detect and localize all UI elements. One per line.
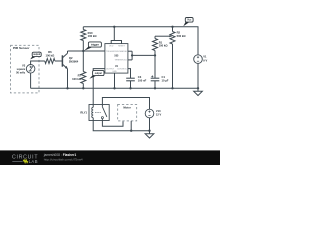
svg-text:jamesh008 : Flasher1: jamesh008 : Flasher1 bbox=[43, 153, 77, 157]
svg-text:Vcc: Vcc bbox=[187, 19, 192, 22]
pin THRESHOLD bbox=[115, 60, 128, 62]
svg-text:100 kΩ: 100 kΩ bbox=[72, 77, 82, 81]
resistor R10 bbox=[81, 27, 86, 51]
wire V3 bottom to ground rail bbox=[30, 73, 32, 88]
capacitor C3 bbox=[126, 78, 135, 89]
label Q2 2N3904 bbox=[69, 56, 79, 63]
ground symbol at V1 bbox=[194, 88, 203, 95]
wire relay switch to motor bbox=[102, 121, 123, 127]
label V1 9 V bbox=[203, 55, 207, 63]
svg-text:output: output bbox=[33, 53, 40, 56]
label C3 100 nF bbox=[138, 75, 147, 82]
svg-text:output: output bbox=[95, 72, 102, 75]
svg-text:C1: C1 bbox=[162, 75, 166, 79]
wire V3 top to R6 bbox=[31, 61, 45, 65]
CircuitLab logo bbox=[12, 154, 38, 163]
label R6 100 kOhm bbox=[45, 50, 55, 57]
svg-text:DISCHARGE: DISCHARGE bbox=[115, 50, 128, 53]
node output flag (PIR) bbox=[30, 52, 41, 59]
pin TRIGGER bbox=[106, 51, 116, 53]
node Vcc flag bbox=[183, 18, 193, 27]
wire 555 CONTROL to C3 bbox=[128, 69, 131, 78]
wire trigger line to 555 TRIGGER pin bbox=[68, 50, 105, 52]
wire Q2 collector to trigger node bbox=[67, 51, 69, 53]
svg-text:500 kΩ: 500 kΩ bbox=[177, 34, 187, 38]
label Motor bbox=[123, 106, 130, 110]
svg-text:GND: GND bbox=[112, 71, 117, 73]
svg-text:http://circuitlab.com/c/75xw4: http://circuitlab.com/c/75xw4 bbox=[44, 158, 83, 162]
pin GND bbox=[112, 71, 117, 73]
svg-text:R7: R7 bbox=[78, 74, 82, 78]
capacitor C1 polarized bbox=[151, 55, 160, 89]
svg-text:square: square bbox=[17, 67, 26, 71]
svg-text:VDD: VDD bbox=[109, 45, 114, 47]
svg-text:V1: V1 bbox=[203, 55, 207, 59]
svg-text:100 kΩ: 100 kΩ bbox=[45, 53, 55, 57]
transistor Q2 2N3904 bbox=[62, 53, 67, 69]
wire R1 to R2 wiper bbox=[155, 35, 172, 37]
label R7 100 kOhm bbox=[72, 74, 82, 81]
label V3 square 50 mHz bbox=[16, 64, 26, 75]
label 555 bbox=[114, 55, 119, 58]
resistor R1 bbox=[153, 36, 158, 55]
label C1 10 uF bbox=[162, 75, 169, 83]
resistor R6 bbox=[45, 59, 63, 64]
label V10 12 V bbox=[156, 109, 162, 117]
PIR Sensor dashed box bbox=[11, 45, 40, 93]
label R2 500 kOhm bbox=[177, 31, 187, 38]
pin RESET bbox=[118, 45, 125, 47]
node trigger flag bbox=[84, 42, 101, 51]
node trigger junction bbox=[82, 50, 84, 52]
svg-text:trigger: trigger bbox=[91, 43, 99, 46]
svg-text:Q2: Q2 bbox=[69, 56, 73, 60]
ground symbol at V10 bbox=[145, 131, 154, 138]
node output flag (555) bbox=[89, 70, 104, 78]
svg-text:100 kΩ: 100 kΩ bbox=[88, 34, 98, 38]
label R1 100 kOhm bbox=[159, 40, 169, 47]
footer bar bbox=[0, 150, 220, 165]
svg-text:R1: R1 bbox=[159, 40, 163, 44]
wire 555 DISCHARGE THRESHOLD tie bbox=[128, 51, 133, 60]
label RLY1 bbox=[80, 110, 87, 114]
wire relay coil bottom to ground node bbox=[93, 121, 149, 131]
svg-text:PIR Sensor: PIR Sensor bbox=[13, 46, 30, 50]
svg-text:555: 555 bbox=[114, 55, 119, 58]
wire V1 bottom to ground rail bbox=[197, 63, 199, 89]
op-amp U1 555 timer box bbox=[105, 44, 128, 74]
svg-text:R10: R10 bbox=[88, 31, 93, 35]
resistor R7 bbox=[81, 51, 86, 90]
voltage source V10 12V bbox=[145, 109, 154, 118]
svg-text:LAB: LAB bbox=[29, 159, 38, 164]
svg-text:CONTROL: CONTROL bbox=[117, 68, 128, 70]
label R10 100 kOhm bbox=[88, 31, 98, 38]
svg-text:C3: C3 bbox=[138, 75, 142, 79]
Motor dashed box bbox=[118, 105, 137, 121]
relay RLY1 bbox=[89, 105, 109, 121]
footer title text bbox=[43, 153, 77, 157]
wire motor right pin to ground line bbox=[130, 121, 132, 132]
voltage source V1 9V bbox=[194, 55, 203, 64]
wire 555 OUTPUT to relay coil bbox=[93, 69, 105, 105]
svg-text:12 V: 12 V bbox=[156, 113, 162, 117]
footer url text bbox=[44, 158, 83, 162]
svg-text:9 V: 9 V bbox=[203, 58, 207, 62]
pin DISCHARGE bbox=[115, 50, 128, 53]
svg-text:100 nF: 100 nF bbox=[138, 78, 147, 82]
wire Q2 emitter to ground rail bbox=[66, 69, 68, 90]
svg-text:Motor: Motor bbox=[123, 106, 130, 110]
svg-text:2N3904: 2N3904 bbox=[69, 59, 79, 63]
svg-text:50 mHz: 50 mHz bbox=[16, 70, 26, 74]
pin OUTPUT bbox=[106, 68, 115, 70]
pin VDD bbox=[109, 45, 114, 47]
svg-text:V10: V10 bbox=[156, 109, 161, 113]
svg-text:RLY1: RLY1 bbox=[80, 110, 87, 114]
svg-text:THRESHOLD: THRESHOLD bbox=[115, 60, 128, 62]
wire 555 GND pin to ground rail bbox=[113, 73, 115, 89]
svg-text:RESET: RESET bbox=[118, 45, 125, 47]
svg-text:V3: V3 bbox=[22, 64, 26, 68]
pin CONTROL bbox=[117, 68, 128, 70]
wire threshold node to RC node bbox=[132, 54, 156, 56]
wire V10 bottom to ground bbox=[148, 118, 150, 132]
wire V10 top to relay switch bbox=[102, 98, 149, 110]
voltage source V3 square wave bbox=[26, 65, 35, 74]
wire top supply rail Vcc bbox=[83, 27, 198, 55]
wire ground rail bbox=[31, 87, 198, 89]
label PIR Sensor bbox=[13, 46, 30, 50]
svg-text:10 µF: 10 µF bbox=[162, 78, 169, 82]
label U1 bbox=[115, 65, 119, 68]
potentiometer R2 bbox=[170, 26, 175, 90]
svg-text:R2: R2 bbox=[177, 31, 181, 35]
wire 555 VDD RESET to rail bbox=[111, 26, 121, 44]
svg-text:100 kΩ: 100 kΩ bbox=[159, 44, 169, 48]
